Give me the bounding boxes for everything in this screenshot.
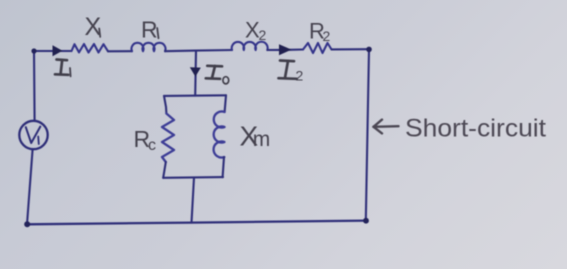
svg-text:2: 2 — [259, 27, 267, 43]
svg-text:2: 2 — [296, 68, 304, 84]
svg-text:2: 2 — [323, 28, 331, 44]
svg-text:R: R — [141, 17, 158, 43]
svg-text:c: c — [148, 137, 156, 154]
svg-text:m: m — [253, 128, 270, 151]
svg-text:Short-circuit: Short-circuit — [405, 115, 546, 143]
svg-text:X: X — [85, 13, 102, 41]
